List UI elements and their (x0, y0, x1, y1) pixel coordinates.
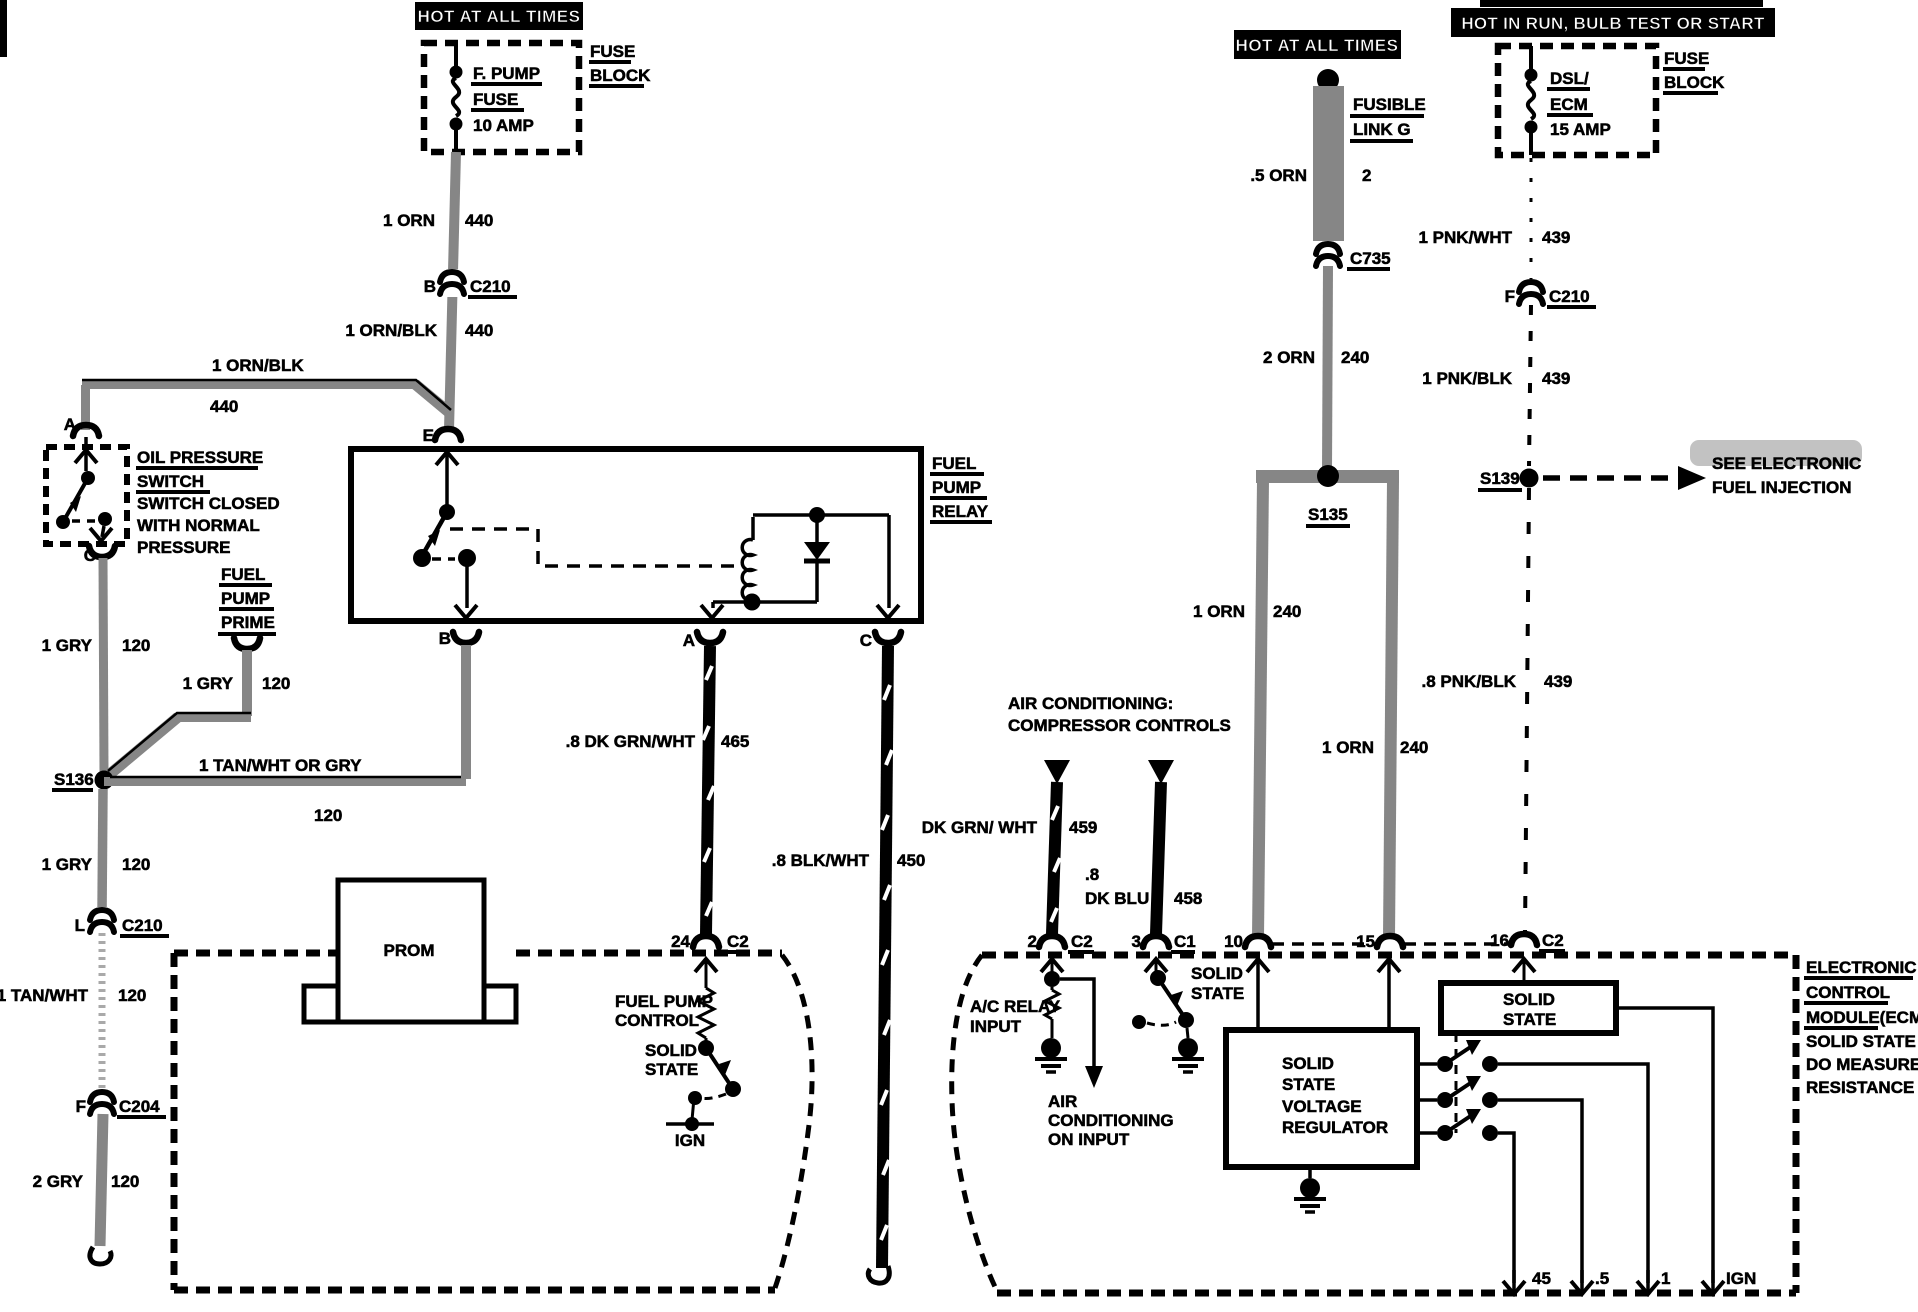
label AIR CONDITIONING: COMPRESSOR CONTROLS (1008, 694, 1231, 735)
fuel pump relay box (351, 449, 921, 621)
wire S135 right leg to pin 15 (1 ORN 240) (1389, 480, 1393, 937)
connector F C204 (inline) (76, 1089, 166, 1117)
ECM left dashed box (174, 953, 812, 1290)
wire S135 left leg to pin 10 (1 ORN 240) (1258, 480, 1263, 937)
svg-text:C: C (84, 546, 96, 565)
wire .8 BLK/WHT 450 relay C down (881, 646, 892, 1268)
svg-text:SOLID: SOLID (645, 1041, 697, 1060)
svg-text:.8 PNK/BLK: .8 PNK/BLK (1422, 672, 1517, 691)
svg-text:C204: C204 (119, 1097, 160, 1116)
arrow from A/C (DK BLU) (1148, 760, 1174, 784)
svg-text:439: 439 (1542, 228, 1570, 247)
label .8 BLK/WHT 450 (772, 851, 926, 870)
pin A oil pressure switch (64, 415, 99, 436)
wire .8 DK BLU 458 (1156, 782, 1161, 934)
svg-text:REGULATOR: REGULATOR (1282, 1118, 1388, 1137)
svg-text:DO MEASURE: DO MEASURE (1806, 1055, 1918, 1074)
svg-text:A: A (683, 631, 695, 650)
svg-text:16: 16 (1490, 931, 1509, 950)
svg-text:FUSE: FUSE (473, 90, 518, 109)
label 1 GRY 120 (prime) (183, 674, 291, 693)
svg-text:440: 440 (465, 211, 493, 230)
wire 440 branch to oil pressure switch (1 ORN/BLK) (81, 380, 451, 430)
relay coil top wire (753, 513, 889, 517)
svg-text:FUSIBLE: FUSIBLE (1353, 95, 1426, 114)
svg-text:INPUT: INPUT (970, 1017, 1022, 1036)
svg-text:120: 120 (111, 1172, 139, 1191)
wire .8 PNK/BLK 439 (dashed) (1525, 488, 1529, 934)
svg-text:FUEL: FUEL (221, 565, 265, 584)
connector F C210 (inline right) (1505, 279, 1596, 307)
svg-text:SOLID STATE: SOLID STATE (1806, 1032, 1916, 1051)
dashed arrow to SEE ELECTRONIC FUEL INJECTION (1543, 466, 1706, 490)
ground (voltage regulator) (1294, 1167, 1326, 1212)
label 1 PNK/WHT 439 (1419, 228, 1571, 247)
svg-text:1 ORN: 1 ORN (1322, 738, 1374, 757)
svg-text:STATE: STATE (1191, 984, 1244, 1003)
splice S135 (1256, 465, 1399, 526)
svg-text:CONDITIONING: CONDITIONING (1048, 1111, 1174, 1130)
svg-text:45: 45 (1532, 1269, 1551, 1288)
svg-text:1 GRY: 1 GRY (183, 674, 234, 693)
wire solid state to IGN output (1616, 1008, 1713, 1283)
svg-text:C2: C2 (1071, 932, 1093, 951)
svg-text:STATE: STATE (1282, 1075, 1335, 1094)
svg-text:ON INPUT: ON INPUT (1048, 1130, 1130, 1149)
svg-text:S135: S135 (1308, 505, 1348, 524)
svg-text:RELAY: RELAY (932, 502, 989, 521)
label FUEL PUMP CONTROL (615, 992, 713, 1030)
svg-text:450: 450 (897, 851, 925, 870)
svg-text:.8 BLK/WHT: .8 BLK/WHT (772, 851, 870, 870)
svg-text:C2: C2 (1542, 931, 1564, 950)
svg-text:HOT AT ALL TIMES: HOT AT ALL TIMES (418, 7, 581, 26)
svg-text:A/C RELAY: A/C RELAY (970, 997, 1061, 1016)
label 2 ORN 240 (1263, 348, 1369, 367)
regulator switch 1 (1417, 1040, 1498, 1072)
fuel pump control circuit (666, 959, 741, 1150)
label .5 ORN 2 (1250, 166, 1371, 185)
label .8 DK GRN/WHT 465 (566, 732, 750, 751)
svg-text:10 AMP: 10 AMP (473, 116, 534, 135)
svg-text:ECM: ECM (1550, 95, 1588, 114)
svg-text:1 ORN/BLK: 1 ORN/BLK (345, 321, 437, 340)
diode CR (804, 515, 830, 602)
fuse DSL/ECM 15 AMP (1525, 46, 1611, 155)
pin 15 (ECM) (1356, 932, 1403, 951)
wire below S136 (1 GRY 120) (102, 789, 103, 912)
svg-text:120: 120 (262, 674, 290, 693)
svg-text:120: 120 (118, 986, 146, 1005)
svg-text:1 PNK/BLK: 1 PNK/BLK (1422, 369, 1512, 388)
dashed link voltage regulator switches (1455, 1033, 1458, 1133)
svg-text:459: 459 (1069, 818, 1097, 837)
svg-text:.5 ORN: .5 ORN (1250, 166, 1307, 185)
svg-text:240: 240 (1400, 738, 1428, 757)
svg-text:SEE ELECTRONIC: SEE ELECTRONIC (1712, 454, 1861, 473)
wire 2 GRY 120 (100, 1114, 103, 1246)
svg-text:465: 465 (721, 732, 749, 751)
svg-text:440: 440 (465, 321, 493, 340)
svg-text:IGN: IGN (675, 1131, 705, 1150)
svg-text:DSL/: DSL/ (1550, 69, 1589, 88)
PROM (304, 880, 516, 1022)
svg-text:OIL PRESSURE: OIL PRESSURE (137, 448, 263, 467)
svg-text:439: 439 (1542, 369, 1570, 388)
svg-text:1: 1 (1661, 1269, 1670, 1288)
fuse block (right) dashed box (1498, 46, 1656, 155)
svg-text:RESISTANCE: RESISTANCE (1806, 1078, 1914, 1097)
wire relay pin B down (1 TAN/WHT OR GRY) (461, 645, 471, 779)
svg-text:C210: C210 (470, 277, 511, 296)
A/C relay input circuit (1041, 959, 1103, 1088)
pin 10 (ECM) (1224, 932, 1271, 951)
label A/C RELAY INPUT (970, 997, 1061, 1036)
svg-text:C735: C735 (1350, 249, 1391, 268)
svg-text:AIR: AIR (1048, 1092, 1077, 1111)
pin C oil pressure switch (84, 546, 115, 565)
svg-text:VOLTAGE: VOLTAGE (1282, 1097, 1362, 1116)
svg-text:FUEL PUMP: FUEL PUMP (615, 992, 713, 1011)
oil pressure switch dashed box (46, 447, 127, 544)
label 1 ORN 240 (right leg) (1322, 738, 1428, 757)
label .8 PNK/BLK 439 (1422, 672, 1573, 691)
svg-text:SWITCH: SWITCH (137, 472, 204, 491)
label 2 GRY 120 (33, 1172, 140, 1191)
svg-text:PRESSURE: PRESSURE (137, 538, 231, 557)
svg-text:C210: C210 (122, 916, 163, 935)
fuse block (left) dashed box (424, 43, 579, 152)
wire switch 2 to pin .5 (1498, 1100, 1582, 1283)
svg-text:120: 120 (122, 855, 150, 874)
svg-text:440: 440 (210, 397, 238, 416)
label 1 ORN 240 (left leg) (1193, 602, 1301, 621)
svg-text:2 GRY: 2 GRY (33, 1172, 84, 1191)
svg-text:PRIME: PRIME (221, 613, 275, 632)
svg-text:1 GRY: 1 GRY (42, 855, 93, 874)
relay coil bottom wire (701, 594, 817, 619)
wire 120 fuel pump prime to S136 (1 GRY) (108, 650, 251, 774)
wire 120 S136 to relay pin B (1 TAN/WHT OR GRY) (104, 777, 466, 786)
wire pin 10 to voltage regulator (1247, 959, 1269, 1030)
svg-text:1 TAN/WHT OR GRY: 1 TAN/WHT OR GRY (199, 756, 362, 775)
svg-text:15 AMP: 15 AMP (1550, 120, 1611, 139)
pin 24 C2 (ECM) (671, 932, 750, 952)
wire DK GRN/WHT 459 (1051, 782, 1060, 934)
svg-text:SOLID: SOLID (1282, 1054, 1334, 1073)
svg-text:CONTROL: CONTROL (615, 1011, 699, 1030)
svg-text:SOLID: SOLID (1503, 990, 1555, 1009)
label 1 GRY 120 (42, 636, 151, 655)
svg-text:240: 240 (1341, 348, 1369, 367)
svg-text:1 TAN/WHT: 1 TAN/WHT (0, 986, 89, 1005)
label DK GRN/ WHT 459 (922, 818, 1098, 837)
wire 440 fuse to relay pin E (1 ORN) (449, 152, 456, 430)
relay switch (E to B) (413, 452, 477, 618)
label AIR CONDITIONING ON INPUT (1048, 1092, 1174, 1149)
svg-text:L: L (75, 916, 85, 935)
wire 1 PNK/WHT 439 (dashed) (1530, 158, 1533, 283)
label FUSE BLOCK (left) (589, 42, 651, 86)
pin C fuel pump relay (860, 631, 901, 650)
svg-text:FUEL INJECTION: FUEL INJECTION (1712, 478, 1851, 497)
connector L C210 (inline) (75, 907, 169, 936)
svg-text:1 ORN: 1 ORN (383, 211, 435, 230)
svg-text:MODULE(ECM): MODULE(ECM) (1806, 1008, 1918, 1027)
svg-text:.5: .5 (1595, 1269, 1609, 1288)
svg-text:2 ORN: 2 ORN (1263, 348, 1315, 367)
svg-text:ELECTRONIC: ELECTRONIC (1806, 958, 1917, 977)
svg-text:3: 3 (1132, 932, 1141, 951)
svg-text:S136: S136 (54, 770, 94, 789)
banner HOT AT ALL TIMES (right) (1234, 30, 1401, 59)
pin B fuel pump relay (439, 629, 479, 648)
pin 16 C2 (ECM) (1490, 931, 1565, 951)
wire pin 15 to voltage regulator (1378, 959, 1400, 1030)
wire end hook (2 GRY) (90, 1247, 111, 1264)
wire .8 DK GRN/WHT 465 relay A to ECM 24 (703, 646, 714, 934)
svg-text:HOT IN RUN, BULB TEST OR START: HOT IN RUN, BULB TEST OR START (1461, 14, 1765, 33)
svg-text:CONTROL: CONTROL (1806, 983, 1890, 1002)
banner HOT AT ALL TIMES (left) (415, 2, 583, 30)
svg-text:1 GRY: 1 GRY (42, 636, 93, 655)
svg-text:1 ORN/BLK: 1 ORN/BLK (212, 356, 304, 375)
solid state voltage regulator box (1226, 1030, 1417, 1167)
svg-text:DK BLU: DK BLU (1085, 889, 1149, 908)
svg-text:E: E (423, 426, 434, 445)
label 1 GRY 120 (below S136) (42, 855, 151, 874)
svg-text:FUSE: FUSE (590, 42, 635, 61)
svg-text:240: 240 (1273, 602, 1301, 621)
splice S136 (52, 770, 114, 790)
svg-text:2: 2 (1028, 932, 1037, 951)
svg-text:SWITCH CLOSED: SWITCH CLOSED (137, 494, 280, 513)
solid state switch (pin 3) (1132, 959, 1194, 1038)
svg-text:BLOCK: BLOCK (590, 66, 651, 85)
relay coil (742, 517, 753, 602)
svg-text:HOT AT ALL TIMES: HOT AT ALL TIMES (1236, 36, 1399, 55)
svg-text:24: 24 (671, 932, 690, 951)
svg-text:SOLID: SOLID (1191, 964, 1243, 983)
output arrows 45 .5 1 IGN (1503, 1269, 1551, 1294)
solid state box (pin 16) (1441, 959, 1616, 1033)
regulator switch 2 (1417, 1076, 1498, 1108)
label FUSIBLE LINK G (1350, 95, 1426, 141)
svg-text:F: F (1505, 287, 1515, 306)
svg-text:F: F (76, 1097, 86, 1116)
svg-text:A: A (64, 415, 76, 434)
label 1 ORN 440 (383, 211, 493, 230)
pin 3 C1 (ECM) (1132, 932, 1196, 952)
svg-text:COMPRESSOR CONTROLS: COMPRESSOR CONTROLS (1008, 716, 1231, 735)
svg-text:IGN: IGN (1726, 1269, 1756, 1288)
label OIL PRESSURE SWITCH ... (136, 448, 280, 557)
arrow from A/C (DK GRN/WHT) (1044, 760, 1070, 784)
splice S139 (1478, 469, 1539, 491)
svg-text:C2: C2 (727, 932, 749, 951)
svg-text:C1: C1 (1174, 932, 1196, 951)
relay control dashed line to coil (450, 529, 737, 566)
pin 2 C2 (ECM) (1028, 932, 1094, 952)
pin A fuel pump relay (683, 631, 723, 650)
ECM right dashed box (952, 955, 1796, 1293)
label 1 ORN/BLK 440 (345, 321, 493, 340)
svg-text:439: 439 (1544, 672, 1572, 691)
svg-text:120: 120 (122, 636, 150, 655)
junction dot (diode top) (809, 507, 825, 523)
svg-text:.8: .8 (1085, 865, 1099, 884)
svg-text:B: B (439, 629, 451, 648)
svg-text:PUMP: PUMP (221, 589, 270, 608)
svg-text:DK GRN/ WHT: DK GRN/ WHT (922, 818, 1038, 837)
fuse F.PUMP FUSE 10 AMP (450, 43, 543, 152)
svg-text:1 PNK/WHT: 1 PNK/WHT (1419, 228, 1513, 247)
label FUEL PUMP RELAY (930, 454, 992, 522)
relay pin C feed wire (877, 515, 899, 618)
connector B C210 (inline) (424, 269, 517, 297)
svg-text:C210: C210 (1549, 287, 1590, 306)
svg-text:15: 15 (1356, 932, 1375, 951)
svg-text:STATE: STATE (645, 1060, 698, 1079)
wire 1 PNK/BLK 439 (dashed) (1529, 305, 1531, 466)
label 1 PNK/BLK 439 (1422, 369, 1570, 388)
banner HOT IN RUN, BULB TEST OR START (1451, 0, 1775, 37)
svg-text:B: B (424, 277, 436, 296)
svg-text:BLOCK: BLOCK (1664, 73, 1725, 92)
label SEE ELECTRONIC FUEL INJECTION (1712, 454, 1861, 497)
fusible link G (.5 ORN 2) (1313, 86, 1344, 241)
svg-text:2: 2 (1362, 166, 1371, 185)
terminal fuel pump prime (234, 638, 260, 649)
oil pressure switch contacts (56, 437, 112, 541)
label FUSE BLOCK (right) (1663, 49, 1725, 93)
label SOLID STATE (pin 3) (1191, 964, 1244, 1003)
connector C735 (inline) (1314, 241, 1391, 269)
halftone smudge (1690, 440, 1862, 466)
label SOLID STATE (fuel pump control) (645, 1041, 698, 1079)
scan edge mark top-left (0, 0, 7, 57)
wire 120 pin C to S136 (1 GRY) (103, 558, 104, 772)
label FUEL PUMP PRIME (218, 565, 276, 634)
svg-text:PUMP: PUMP (932, 478, 981, 497)
wire end hook (450) (868, 1266, 889, 1283)
svg-text:FUSE: FUSE (1664, 49, 1709, 68)
pin E fuel pump relay (423, 426, 461, 445)
svg-text:S139: S139 (1480, 469, 1520, 488)
svg-text:1 ORN: 1 ORN (1193, 602, 1245, 621)
svg-text:458: 458 (1174, 889, 1202, 908)
svg-text:120: 120 (314, 806, 342, 825)
node fusible link top (1317, 69, 1339, 91)
label 1 TAN/WHT 120 (0, 986, 146, 1005)
svg-text:WITH NORMAL: WITH NORMAL (137, 516, 260, 535)
wire 1 TAN/WHT 120 (faint) (99, 933, 106, 1092)
label ELECTRONIC CONTROL MODULE(ECM) (1804, 958, 1918, 1097)
svg-text:STATE: STATE (1503, 1010, 1556, 1029)
regulator switch 3 (1417, 1109, 1498, 1141)
label .8 DK BLU 458 (1085, 865, 1202, 908)
svg-text:.8 DK GRN/WHT: .8 DK GRN/WHT (566, 732, 696, 751)
svg-text:FUEL: FUEL (932, 454, 976, 473)
svg-text:C: C (860, 631, 872, 650)
ground (solid state pin3) (1172, 1038, 1204, 1072)
wire switch 1 to pin 1 (1498, 1064, 1648, 1283)
svg-text:F. PUMP: F. PUMP (473, 64, 540, 83)
wire 2 ORN 240 (1327, 266, 1328, 472)
svg-text:AIR CONDITIONING:: AIR CONDITIONING: (1008, 694, 1173, 713)
ground (A/C relay input) (1035, 1038, 1067, 1072)
svg-text:PROM: PROM (384, 941, 435, 960)
wire switch 3 to pin 45 (1498, 1133, 1514, 1283)
svg-text:10: 10 (1224, 932, 1243, 951)
svg-text:LINK G: LINK G (1353, 120, 1411, 139)
connector line C2 pins 10-15-16 (1272, 942, 1510, 946)
